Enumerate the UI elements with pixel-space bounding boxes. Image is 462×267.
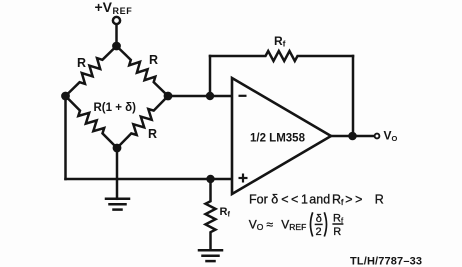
- wire bottom rail to noninverting input: [66, 178, 233, 181]
- wire bridge right node to inverting input: [168, 95, 232, 98]
- node noninverting input junction: [206, 175, 214, 183]
- pin minus (inverting input): [239, 95, 247, 97]
- svg-text:TL/H/7787–33: TL/H/7787–33: [350, 256, 422, 267]
- wire bridge left node down: [64, 96, 67, 179]
- node bridge bottom: [113, 144, 122, 153]
- svg-text:R: R: [77, 56, 86, 70]
- wire feedback up: [209, 56, 212, 96]
- formula VO = VREF (d/2) Rf/R: [249, 212, 344, 238]
- svg-text:2: 2: [316, 226, 322, 238]
- terminal VO: [375, 134, 380, 139]
- svg-text:Rf: Rf: [333, 213, 344, 225]
- power terminal +VREF: [113, 17, 120, 24]
- svg-text:R(1 + δ): R(1 + δ): [94, 102, 137, 114]
- node bridge right: [164, 92, 173, 101]
- svg-text:1/2 LM358: 1/2 LM358: [250, 133, 306, 145]
- svg-text:R: R: [148, 127, 157, 141]
- svg-text:δ: δ: [316, 213, 322, 225]
- resistor R (bridge lower-right): [117, 96, 168, 148]
- wire VREF to bridge top: [115, 25, 118, 46]
- resistor R (bridge upper-left): [66, 46, 117, 96]
- wire bridge bottom to ground: [116, 148, 119, 199]
- node feedback junction at inverting input: [206, 92, 214, 100]
- resistor Rf (feedback): [210, 51, 353, 61]
- node bridge left: [61, 92, 70, 101]
- svg-text:Rf: Rf: [274, 34, 286, 49]
- wire feedback down to output: [352, 56, 355, 136]
- ground (bridge bottom): [106, 199, 129, 210]
- svg-text:For δ<<1andRf>>R: For δ<<1andRf>>R: [249, 193, 384, 208]
- resistor Rf (bias, to ground): [206, 179, 216, 250]
- pin plus (noninverting input): [239, 174, 248, 183]
- svg-text:Rf: Rf: [220, 206, 231, 219]
- resistor R(1+d) (bridge lower-left): [66, 96, 118, 148]
- resistor R (bridge upper-right): [117, 46, 169, 96]
- node output junction: [348, 132, 357, 141]
- svg-text:R: R: [333, 226, 341, 238]
- wire op-amp output: [331, 135, 374, 138]
- svg-text:VO: VO: [384, 129, 398, 144]
- svg-text:VO≈VREF: VO≈VREF: [249, 217, 307, 232]
- svg-text:+VREF: +VREF: [95, 0, 133, 16]
- op-amp U1 1/2 LM358: [232, 78, 331, 194]
- node bridge top: [112, 42, 121, 51]
- svg-text:R: R: [149, 53, 158, 67]
- ground (bias resistor): [199, 250, 222, 261]
